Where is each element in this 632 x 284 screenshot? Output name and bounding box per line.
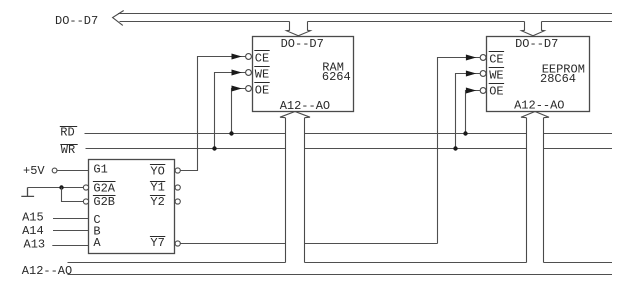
- wire RAM OE to RD: [232, 89, 246, 134]
- +5V terminal circle: [52, 168, 57, 173]
- arrowhead EEPROM CE: [466, 55, 475, 60]
- data bus D0--D7 bottom line: [120, 21, 613, 23]
- svg-text:OE: OE: [255, 83, 269, 97]
- svg-text:WE: WE: [489, 68, 503, 82]
- wire RD line: [85, 133, 613, 135]
- svg-text:YO: YO: [150, 165, 164, 179]
- decoder Y7 bubble: [175, 241, 180, 246]
- decoder Y0 bubble: [175, 168, 180, 173]
- bus drop arrow into RAM D0--D7: [286, 22, 310, 36]
- bus drop arrow into EEPROM D0--D7: [521, 22, 544, 36]
- svg-text:DO--D7: DO--D7: [55, 14, 98, 28]
- decoder G2B bubble: [83, 199, 88, 204]
- svg-text:WE: WE: [255, 67, 269, 81]
- wire EEPROM OE to RD: [466, 91, 481, 134]
- junction EEPROM OE / RD: [463, 131, 467, 135]
- arrowhead EEPROM OE: [466, 88, 475, 93]
- decoder Y1 bubble: [175, 185, 180, 190]
- svg-text:A12--AO: A12--AO: [280, 99, 330, 113]
- junction RAM WE / WR: [212, 146, 216, 150]
- data bus D0--D7 top line: [118, 13, 612, 15]
- ground: [21, 188, 34, 197]
- wire A15 to C: [53, 218, 89, 220]
- decoder G2A bubble: [83, 185, 88, 190]
- decoder 74LS138 box: [89, 160, 175, 254]
- svg-text:G2A: G2A: [93, 182, 115, 196]
- address bus A12--A0 bottom line: [68, 274, 613, 276]
- svg-text:+5V: +5V: [23, 164, 45, 178]
- wire EEPROM WE to WR: [456, 74, 481, 149]
- arrowhead RAM WE: [232, 70, 241, 75]
- decoder Y2 bubble: [175, 199, 180, 204]
- svg-text:A12--AO: A12--AO: [22, 264, 72, 278]
- junction EEPROM WE / WR: [453, 146, 457, 150]
- wire Y0 to RAM CE: [180, 57, 245, 171]
- svg-text:A: A: [93, 236, 101, 250]
- RAM U1 box: [253, 37, 354, 112]
- wire RAM WE to WR: [215, 73, 246, 149]
- bus arrowhead pointing left: [113, 11, 124, 26]
- EEPROM U2 box: [487, 37, 590, 112]
- svg-text:WR: WR: [61, 143, 75, 157]
- svg-text:A14: A14: [22, 224, 44, 238]
- svg-text:G1: G1: [93, 163, 107, 177]
- wire Y7 to EEPROM CE: [180, 58, 480, 244]
- svg-text:DO--D7: DO--D7: [281, 37, 324, 51]
- EEPROM CE bubble: [480, 55, 486, 61]
- wire ground to G2A: [28, 187, 84, 189]
- svg-text:28C64: 28C64: [540, 72, 576, 86]
- EEPROM WE bubble: [480, 71, 486, 77]
- svg-text:CE: CE: [255, 51, 269, 65]
- svg-text:G2B: G2B: [93, 195, 115, 209]
- wire WR line: [86, 148, 613, 150]
- address bus arrow into RAM A12--A0: [280, 112, 310, 263]
- svg-text:OE: OE: [489, 84, 503, 98]
- arrowhead EEPROM WE: [466, 71, 475, 76]
- svg-text:Y1: Y1: [150, 181, 164, 195]
- svg-text:CE: CE: [489, 52, 503, 66]
- address bus A12--A0 top line: [68, 262, 613, 264]
- svg-text:A13: A13: [24, 237, 46, 251]
- junction ground / G2B: [59, 185, 63, 189]
- junction RAM OE / RD: [229, 131, 233, 135]
- svg-text:Y2: Y2: [150, 195, 164, 209]
- EEPROM OE bubble: [480, 88, 486, 94]
- wire junction to G2B: [62, 188, 84, 202]
- wire A13 to A: [52, 245, 88, 247]
- arrowhead RAM OE: [232, 86, 241, 91]
- svg-text:DO--D7: DO--D7: [515, 37, 558, 51]
- arrowhead RAM CE: [232, 54, 241, 59]
- svg-text:A15: A15: [22, 211, 44, 225]
- svg-text:6264: 6264: [322, 70, 351, 84]
- svg-text:RD: RD: [60, 125, 74, 139]
- svg-text:A12--AO: A12--AO: [514, 99, 564, 113]
- RAM CE bubble: [246, 54, 252, 60]
- RAM OE bubble: [246, 86, 252, 92]
- address bus arrow into EEPROM A12--A0: [521, 112, 549, 263]
- svg-text:Y7: Y7: [150, 236, 164, 250]
- wire +5V to G1: [57, 170, 89, 172]
- RAM WE bubble: [246, 70, 252, 76]
- wire A14 to B: [53, 230, 89, 232]
